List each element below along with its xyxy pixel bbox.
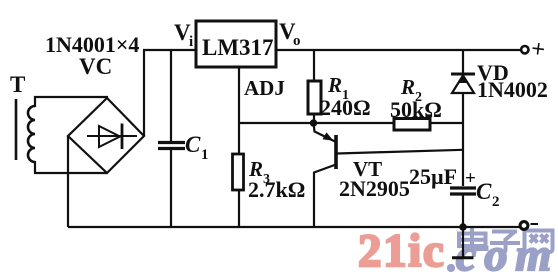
svg-text:25µF: 25µF: [409, 164, 457, 189]
svg-text:o: o: [293, 33, 301, 49]
wire: Vi rail into LM317: [143, 49, 195, 51]
transformer T secondary coil: [28, 106, 35, 162]
diode VD cathode bar: [451, 73, 475, 76]
wire: drop to R3: [238, 123, 240, 154]
wire: coil top to bridge AC top: [35, 97, 107, 107]
svg-text:T: T: [10, 72, 25, 97]
+ output terminal: [521, 46, 528, 53]
svg-text:1: 1: [201, 147, 209, 163]
svg-text:i: i: [189, 34, 193, 50]
capacitor C2: [450, 188, 476, 194]
watermark character zi: [490, 232, 520, 253]
wire: VD riser from Vo rail: [462, 50, 464, 74]
svg-text:R: R: [327, 73, 342, 97]
bridge rectifier VC diamond: [68, 98, 144, 173]
resistor R2 body: [394, 119, 430, 131]
watermark character wang: [525, 231, 553, 253]
svg-text:21ic: 21ic: [358, 225, 445, 274]
wire: coil bottom to bridge AC bottom: [35, 161, 107, 173]
capacitor C1: [158, 143, 185, 149]
svg-text:1N4002: 1N4002: [477, 77, 548, 102]
wire: C2 down to rail: [462, 195, 464, 227]
- output terminal: [520, 222, 528, 230]
wire: bridge minus (left corner) down to bottom rail: [67, 136, 69, 227]
svg-text:2: 2: [492, 194, 500, 210]
watermark character dian: [459, 228, 487, 249]
junction dot at C2/rail: [459, 223, 467, 231]
wire: R1 riser from Vo rail: [313, 50, 315, 81]
watermark .com script: [447, 264, 455, 272]
node A junction dot: [310, 119, 317, 126]
svg-text:VC: VC: [79, 54, 112, 79]
svg-text:C: C: [476, 179, 492, 204]
wire: bridge plus (right corner) up to Vi rail: [143, 50, 145, 136]
transformer T core bar: [15, 99, 18, 160]
svg-text:240Ω: 240Ω: [320, 95, 371, 120]
wire: ADJ pin down from LM317: [238, 67, 240, 123]
wire: R2 right lead to VD column: [430, 122, 463, 124]
svg-text:C: C: [185, 132, 201, 157]
resistor R3 body: [233, 154, 244, 190]
transistor Q1 VT emitter wire with arrow: [314, 123, 336, 142]
wire: R3 bottom to rail: [238, 190, 240, 227]
wire: R1 bottom lead: [313, 114, 315, 123]
svg-text:LM317: LM317: [202, 35, 274, 60]
wire: VT base lead to VD/C2 column: [337, 150, 463, 154]
bridge diode symbol: [87, 124, 137, 150]
diode VD triangle: [452, 76, 474, 94]
C2 ground stub below rail: [462, 227, 464, 257]
wire: ADJ node line to emitter junction and R2: [239, 122, 394, 124]
svg-text:2.7kΩ: 2.7kΩ: [248, 177, 305, 202]
svg-text:ADJ: ADJ: [244, 76, 285, 100]
transistor Q1 base bar: [334, 135, 338, 169]
svg-text:+: +: [465, 168, 476, 189]
svg-text:com: com: [456, 229, 558, 274]
svg-text:2N2905: 2N2905: [339, 176, 410, 201]
wire: C1 riser from Vi rail: [170, 50, 172, 141]
wire: Vo rail to + output terminal: [276, 49, 521, 51]
resistor R1 body: [308, 81, 321, 114]
svg-text:50kΩ: 50kΩ: [390, 97, 442, 122]
wire: VD to C2 column: [462, 93, 464, 186]
wire: C1 down to bottom rail: [170, 150, 172, 227]
regulator U1 LM317 box: [196, 21, 276, 67]
svg-text:R: R: [400, 75, 415, 99]
transistor Q1 collector wire: [314, 165, 336, 228]
bottom rail wire: [68, 226, 520, 228]
